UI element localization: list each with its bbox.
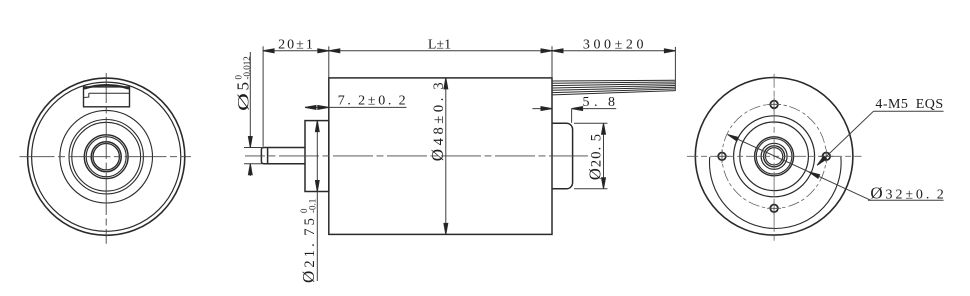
svg-text:Ø21.75: Ø21.75: [299, 215, 318, 283]
svg-text:300±20: 300±20: [583, 38, 647, 53]
svg-text:Ø20.5: Ø20.5: [586, 133, 605, 180]
svg-text:L±1: L±1: [428, 38, 451, 53]
svg-text:5: 5: [234, 82, 253, 91]
svg-text:4-M5 EQS: 4-M5 EQS: [875, 97, 943, 112]
svg-text:5.8: 5.8: [583, 95, 620, 110]
svg-text:7.2±0.2: 7.2±0.2: [338, 93, 409, 108]
svg-text:Ø: Ø: [234, 93, 252, 111]
svg-text:20±1: 20±1: [278, 38, 315, 53]
svg-text:-0.1: -0.1: [307, 199, 317, 213]
svg-text:-0.012: -0.012: [242, 56, 252, 79]
